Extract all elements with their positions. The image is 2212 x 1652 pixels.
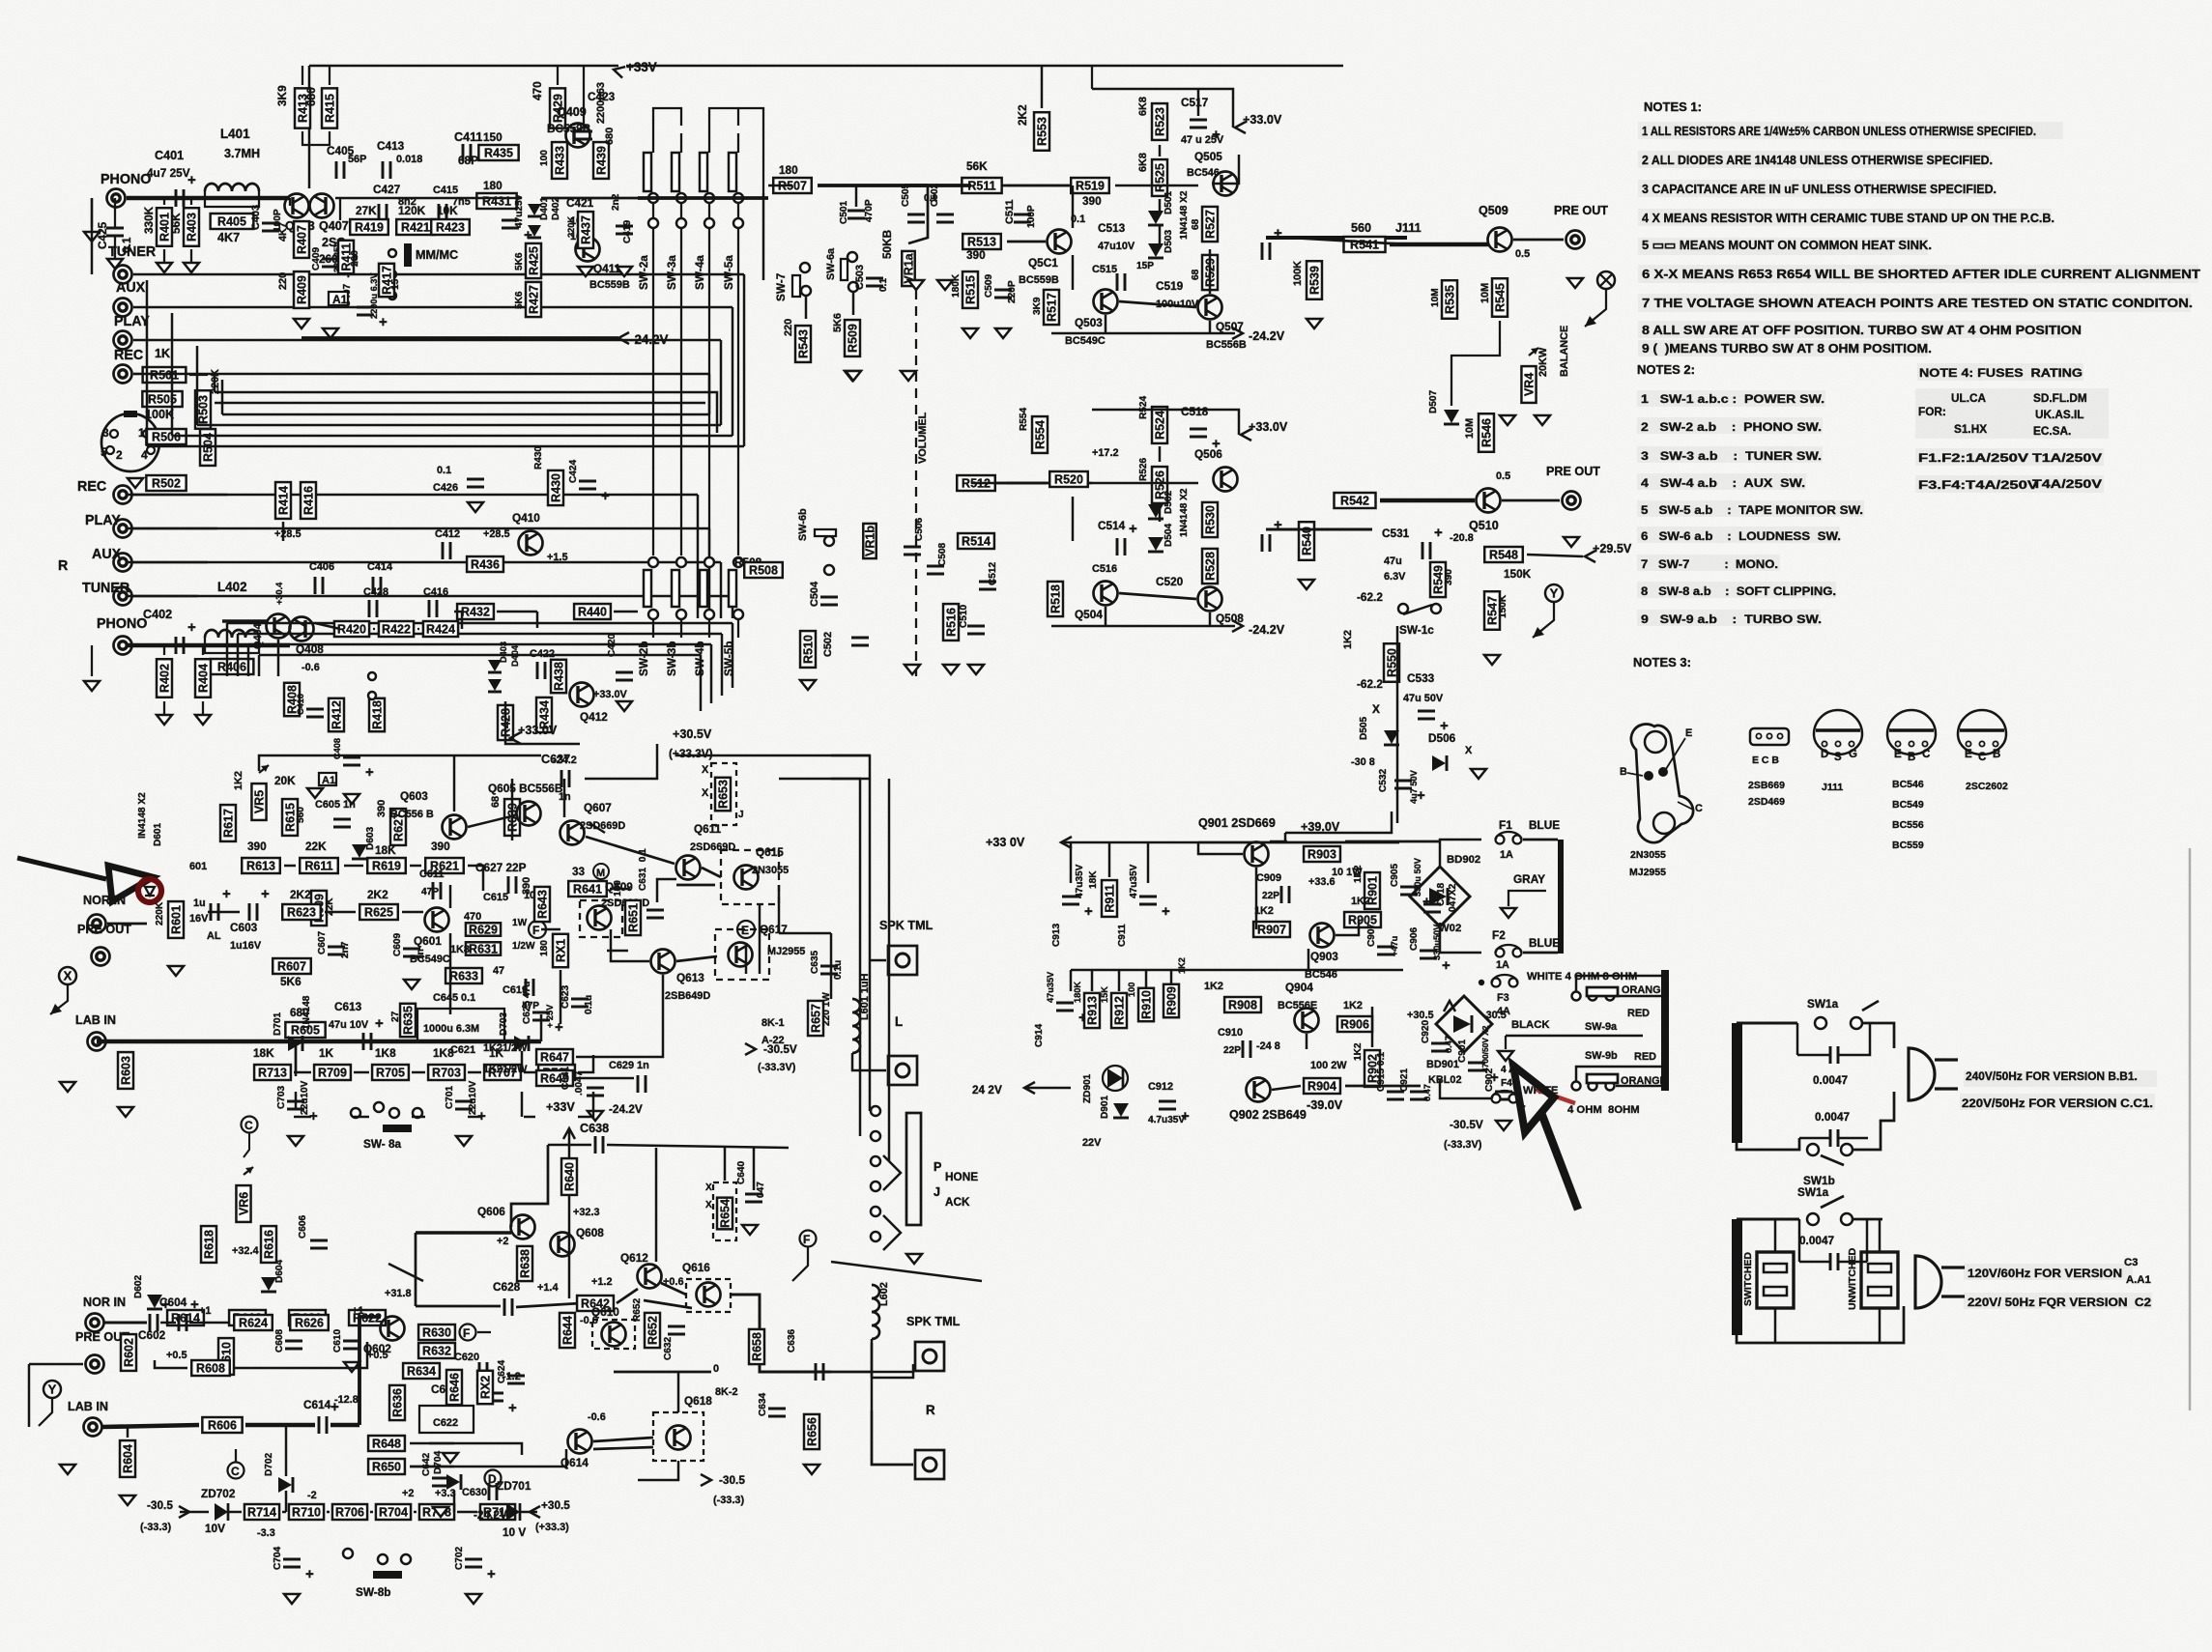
svg-text:5K6: 5K6	[280, 975, 302, 988]
mains1 primary bar	[1732, 1023, 1742, 1143]
resistor R621	[425, 858, 464, 873]
capacitor C915x	[1387, 1092, 1404, 1099]
svg-text:6K8: 6K8	[1137, 97, 1149, 116]
capacitor C414	[373, 577, 381, 594]
svg-text:C533: C533	[1407, 671, 1435, 685]
bus L line 1 bottom	[147, 445, 744, 447]
jack PHONO R	[114, 637, 132, 655]
resistor R513	[962, 234, 1001, 249]
resistor R913	[1084, 993, 1100, 1028]
svg-text:1/2W: 1/2W	[512, 941, 535, 952]
wire r526-d502	[1159, 506, 1161, 522]
resistor R420	[334, 621, 369, 637]
svg-text:R526: R526	[1138, 457, 1149, 481]
ground C610	[344, 1362, 359, 1372]
wire SW-5a mid	[737, 203, 739, 218]
resistor R605	[285, 1022, 325, 1038]
svg-text:D403: D403	[499, 641, 508, 663]
svg-text:-24.2V: -24.2V	[609, 1102, 643, 1116]
switch body SW-4b	[700, 570, 707, 607]
contact SW-6b b	[824, 565, 834, 575]
arrow 24.2	[1024, 1082, 1035, 1094]
capacitor C631	[646, 910, 664, 918]
svg-text:C519: C519	[1156, 279, 1184, 293]
svg-text:C420: C420	[607, 633, 618, 657]
contact SW-4a b	[704, 218, 714, 228]
wire spk R in	[872, 1364, 913, 1372]
resistor R623	[282, 904, 321, 920]
svg-text:1u: 1u	[193, 897, 206, 909]
svg-text:4K7: 4K7	[217, 231, 240, 244]
svg-text:R509: R509	[847, 324, 860, 353]
ground C703	[288, 1136, 303, 1146]
wire c601-r613	[208, 911, 240, 913]
ground vr	[901, 371, 916, 381]
resistor R510	[800, 631, 816, 668]
svg-text:R548: R548	[1489, 549, 1518, 562]
wire r428 row	[505, 701, 580, 744]
svg-text:1K2: 1K2	[1353, 865, 1364, 883]
resistor R619	[367, 858, 406, 873]
resistor R653	[715, 778, 731, 811]
wire q611-q615b	[702, 868, 721, 877]
svg-text:390: 390	[247, 840, 267, 853]
svg-text:+30.5: +30.5	[1407, 1010, 1434, 1021]
svg-text:R539: R539	[1308, 266, 1322, 295]
X hook arrow	[1585, 316, 1596, 327]
svg-text:SW-9b: SW-9b	[1585, 1050, 1618, 1062]
svg-text:R617: R617	[222, 809, 236, 838]
resistor R415	[322, 88, 337, 128]
svg-text:10M: 10M	[1479, 283, 1491, 303]
svg-text:C506: C506	[914, 517, 925, 541]
wire blk1 drop	[1091, 66, 1093, 89]
bus inner drop	[214, 375, 215, 392]
svg-text:NOTES 3:: NOTES 3:	[1633, 655, 1691, 669]
svg-text:0.1: 0.1	[120, 237, 133, 253]
wire r650	[410, 1466, 454, 1467]
svg-text:R913: R913	[1086, 996, 1100, 1025]
wire l602 out	[871, 1339, 873, 1372]
svg-text:10V: 10V	[205, 1522, 225, 1535]
resistor R428	[498, 705, 513, 740]
svg-text:VR5: VR5	[253, 790, 267, 813]
svg-text:33: 33	[572, 865, 586, 878]
diode D601 red circle	[138, 879, 161, 902]
svg-text:R421: R421	[401, 221, 430, 235]
contact SW8a a	[351, 1108, 360, 1118]
resistor RX2	[477, 1371, 493, 1404]
svg-text:+: +	[261, 886, 270, 902]
svg-text:C411: C411	[454, 130, 482, 144]
wire q503 down	[1105, 315, 1106, 333]
contact sw1b L	[1807, 1144, 1819, 1155]
svg-text:D601: D601	[153, 822, 163, 846]
capacitor C403	[262, 223, 279, 231]
svg-text:470P: 470P	[864, 199, 875, 222]
arrow -24.2V	[618, 332, 629, 344]
svg-text:C510: C510	[959, 604, 969, 628]
wire 24.2 ps	[1024, 1087, 1071, 1089]
resistor R431	[476, 193, 516, 209]
jack PLAY R	[114, 520, 132, 538]
svg-text:15P: 15P	[1136, 261, 1154, 271]
svg-text:Q509: Q509	[1479, 204, 1508, 217]
bus L line 1 right	[743, 274, 745, 446]
svg-text:390: 390	[521, 877, 532, 895]
resistor R911	[1102, 880, 1117, 917]
svg-text:10M: 10M	[1430, 288, 1441, 307]
svg-text:56K: 56K	[966, 159, 988, 173]
transistor Q408	[290, 617, 314, 641]
capacitor C531	[1422, 525, 1443, 559]
svg-text:MJ2955: MJ2955	[1629, 867, 1666, 878]
resistor R520	[1049, 471, 1088, 487]
wire d501-d503	[1159, 226, 1161, 243]
svg-text:R653: R653	[717, 780, 731, 809]
svg-text:+33 0V: +33 0V	[986, 836, 1025, 849]
arrow -24.2V blk2	[1232, 620, 1243, 632]
svg-text:C604: C604	[159, 1296, 187, 1309]
bus L line 1 top	[133, 273, 744, 275]
wire out node R	[614, 1371, 711, 1374]
wire q603-q605	[468, 815, 515, 827]
resistor R646	[446, 1370, 462, 1405]
svg-text:-3.3: -3.3	[257, 1527, 275, 1539]
jack NOR IN L	[88, 915, 106, 933]
wire blk2 -24 rail	[1051, 625, 1235, 627]
resistor R425	[526, 243, 541, 278]
ground R509	[845, 371, 860, 381]
resistor R624	[234, 1315, 273, 1330]
svg-text:R626: R626	[295, 1317, 324, 1330]
capacitor C606	[310, 1240, 328, 1248]
wire F2 to xfmr	[1523, 952, 1558, 954]
svg-text:-24.2V: -24.2V	[630, 332, 669, 347]
svg-text:6.3V: 6.3V	[1384, 571, 1406, 583]
node Y circle	[1545, 584, 1563, 602]
svg-text:SW-4a: SW-4a	[693, 255, 706, 290]
svg-text:R624: R624	[239, 1317, 268, 1330]
svg-text:1K2: 1K2	[233, 771, 244, 790]
resistor R651	[625, 900, 641, 935]
wire ps top rail	[1061, 841, 1198, 843]
svg-text:SWITCHED: SWITCHED	[1742, 1252, 1754, 1306]
phone contact 3	[871, 1156, 880, 1166]
wire SW-3a top	[680, 133, 682, 153]
TO-3 pin B dot	[1644, 771, 1653, 781]
svg-text:C413: C413	[377, 139, 405, 153]
svg-text:W02: W02	[1439, 923, 1461, 934]
svg-text:D602: D602	[133, 1274, 144, 1298]
diode D603	[352, 844, 367, 859]
wire q903 coll	[1336, 920, 1359, 935]
resistor R543	[795, 326, 811, 362]
svg-text:R439: R439	[595, 146, 609, 175]
svg-text:R652: R652	[632, 1297, 643, 1322]
resistor R527	[1202, 207, 1218, 242]
svg-text:Q607: Q607	[584, 801, 612, 814]
svg-text:R404: R404	[197, 664, 211, 693]
svg-text:180: 180	[483, 179, 503, 192]
svg-text:C415: C415	[433, 185, 458, 196]
svg-text:C606: C606	[298, 1214, 308, 1239]
ground phone	[906, 1254, 922, 1264]
arrow +33V	[612, 64, 625, 77]
svg-text:R407: R407	[296, 225, 309, 254]
svg-text:470: 470	[464, 911, 481, 923]
resistor R633	[445, 968, 482, 983]
wire L401 bypass	[205, 191, 259, 207]
resistor R632	[418, 1343, 455, 1358]
svg-text:47u 50V: 47u 50V	[1403, 693, 1444, 704]
svg-text:Q503: Q503	[1075, 316, 1103, 329]
svg-text:SPK TML: SPK TML	[906, 1315, 961, 1328]
wire q614-q618	[593, 1447, 653, 1449]
svg-text:C622: C622	[433, 1417, 458, 1429]
svg-text:0.1: 0.1	[878, 278, 889, 292]
resistor R501	[143, 367, 187, 383]
svg-text:RED: RED	[1634, 1051, 1656, 1063]
VR6 wiper arrow	[245, 1167, 253, 1174]
wire r910 top	[1145, 970, 1147, 987]
contact SW8a c	[389, 1108, 399, 1118]
jack PLAY L	[114, 331, 132, 350]
mains1 cap wire R	[1838, 1023, 1870, 1055]
svg-text:R540: R540	[1301, 527, 1314, 555]
svg-text:4: 4	[141, 448, 148, 462]
svg-text:SW-4b: SW-4b	[693, 641, 706, 676]
svg-text:+: +	[187, 619, 196, 636]
circle D node	[485, 1470, 502, 1487]
svg-text:.0047: .0047	[574, 1070, 585, 1096]
svg-text:2SD669D: 2SD669D	[690, 841, 735, 853]
svg-text:1u16V: 1u16V	[230, 940, 262, 952]
svg-text:AUX: AUX	[116, 280, 146, 296]
transistor Q606	[511, 1215, 535, 1239]
contact SW8a b	[374, 1102, 384, 1112]
bus low line 1 left	[226, 623, 228, 676]
wire to Q403	[289, 198, 291, 206]
wire R553 top	[1041, 66, 1043, 108]
wire q507 down	[1209, 321, 1211, 333]
wire r709-r705	[354, 1071, 369, 1073]
svg-text:2K2: 2K2	[1016, 104, 1029, 126]
svg-text:R648: R648	[372, 1438, 401, 1451]
jack PRE OUT R	[1563, 492, 1581, 510]
capacitor C402	[176, 619, 196, 654]
wire SW-3b drop	[680, 619, 682, 638]
wire r713-r709	[294, 1116, 311, 1118]
wire r608 in	[155, 1360, 187, 1368]
resistor R712	[480, 1504, 515, 1520]
svg-text:BC556B: BC556B	[1206, 339, 1247, 351]
scan edge line	[2189, 848, 2191, 1410]
svg-text:ORANGE: ORANGE	[1622, 984, 1668, 996]
svg-text:NOTES 1:: NOTES 1:	[1644, 100, 1702, 114]
wire black run	[1506, 1035, 1643, 1037]
resistor R511	[962, 178, 1001, 193]
svg-text:1K2: 1K2	[1204, 981, 1223, 992]
svg-text:560: 560	[1351, 221, 1371, 235]
TO-3 pin E dot	[1658, 767, 1668, 777]
wire r440 out	[614, 611, 638, 612]
svg-text:R412: R412	[330, 700, 344, 729]
wire 33V drop	[568, 1128, 570, 1159]
resistor R602	[121, 1334, 136, 1371]
wire r709-r705	[354, 1116, 369, 1118]
outlet unsw bottom	[1879, 1308, 1881, 1343]
capacitor C413	[383, 161, 390, 179]
svg-text:R437: R437	[580, 215, 593, 244]
capacitor C632	[668, 1326, 685, 1334]
wire R403	[190, 198, 192, 205]
svg-text:0.47: 0.47	[1422, 1084, 1432, 1101]
svg-text:Q412: Q412	[580, 710, 608, 724]
diode D604	[261, 1277, 276, 1292]
transistor Q610	[602, 1323, 626, 1347]
svg-text:+30.5: +30.5	[541, 1498, 570, 1512]
svg-text:R618: R618	[203, 1230, 216, 1259]
wire r902 col	[1371, 1007, 1373, 1047]
inductor L402	[205, 630, 259, 638]
C622 box	[419, 1406, 474, 1433]
diode D602	[147, 1295, 162, 1309]
ground C609	[404, 980, 419, 989]
wire r648 out	[410, 1443, 522, 1455]
wire q605-q607	[589, 823, 605, 833]
svg-text:R: R	[926, 1403, 935, 1417]
wire phone feed 3	[888, 779, 890, 1161]
transistor Q605	[517, 802, 541, 826]
svg-text:M: M	[596, 868, 605, 879]
capacitor C411	[463, 144, 471, 161]
wire F4 feed	[1440, 1079, 1491, 1098]
svg-text:C615: C615	[483, 892, 508, 903]
bus low line 1 top	[227, 622, 733, 624]
transistor Q615	[734, 866, 759, 890]
capacitor C425	[106, 228, 124, 236]
svg-text:R909: R909	[1165, 986, 1179, 1015]
contact SW-7 b	[801, 286, 811, 296]
svg-text:C: C	[1695, 803, 1703, 814]
wire r703-r707	[468, 1116, 481, 1118]
diode D404	[488, 679, 502, 692]
wire c625 tie	[540, 1014, 542, 1041]
scan shadow 1	[1638, 151, 1991, 168]
resistor R607	[273, 958, 311, 974]
svg-text:R406: R406	[217, 661, 246, 674]
wire q618 down	[638, 1461, 678, 1480]
wire c613 on	[375, 1040, 541, 1043]
wire r625-q601	[402, 911, 423, 913]
A1 box 2	[319, 773, 336, 785]
wire r611-r619	[344, 865, 363, 867]
svg-text:E: E	[1685, 727, 1692, 739]
svg-text:BC556 B: BC556 B	[390, 809, 434, 820]
svg-text:L602: L602	[878, 1282, 890, 1306]
Q615 dashed box	[721, 850, 779, 904]
svg-text:R513: R513	[967, 236, 996, 249]
resistor R608	[191, 1360, 230, 1376]
diode D506	[1432, 755, 1447, 771]
svg-text:F1: F1	[1499, 818, 1512, 832]
resistor R644	[560, 1313, 575, 1348]
svg-text:X: X	[1465, 745, 1473, 756]
wire q611 base	[657, 879, 676, 902]
svg-text:BC546: BC546	[1892, 779, 1924, 790]
svg-text:BLUE: BLUE	[1529, 818, 1560, 832]
svg-text:R418: R418	[371, 700, 385, 729]
svg-text:R430: R430	[533, 445, 544, 470]
wire to Q501 block	[971, 185, 1092, 187]
resistor R617	[220, 805, 236, 841]
svg-text:PHONO: PHONO	[101, 172, 151, 187]
phone tip1	[883, 1155, 901, 1190]
capacitor C630	[489, 1483, 497, 1500]
svg-text:+47u: +47u	[1390, 936, 1399, 956]
svg-text:1K8: 1K8	[433, 1046, 454, 1060]
diode D703	[514, 1036, 529, 1051]
svg-text:-1.2: -1.2	[503, 1371, 521, 1382]
svg-text:R706: R706	[335, 1506, 364, 1520]
svg-text:+: +	[555, 1019, 563, 1036]
svg-text:R524: R524	[1138, 395, 1149, 419]
arrow -30.5 b	[701, 1474, 711, 1486]
svg-text:+: +	[187, 172, 196, 188]
wire r525-d501	[1159, 199, 1161, 211]
mains2 top wire2	[1853, 1218, 1882, 1221]
mains2 cap wire L	[1799, 1261, 1830, 1263]
svg-text:X: X	[702, 787, 709, 799]
wire r507 left	[768, 185, 792, 186]
resistor R629	[466, 923, 501, 936]
wire d701 drop	[295, 1041, 297, 1076]
svg-text:E: E	[1965, 749, 1972, 760]
terminal SPK R2	[915, 1450, 944, 1479]
transistor Q508	[1198, 587, 1222, 612]
wire r605-c613	[329, 1040, 359, 1043]
svg-text:Y: Y	[48, 1382, 57, 1397]
wire q601 down	[449, 933, 451, 1014]
svg-text:R432: R432	[461, 606, 490, 619]
mains1 bottom wire2	[1853, 1092, 1894, 1150]
wire SW-3a long drop	[680, 228, 682, 555]
svg-text:R430: R430	[550, 473, 563, 502]
wire c628 in	[416, 1305, 501, 1308]
capacitor C628	[504, 1298, 512, 1316]
svg-text:0: 0	[713, 1363, 719, 1375]
svg-text:R553: R553	[1036, 117, 1049, 146]
wire sw9a to bar	[1616, 995, 1661, 997]
wire Q403 collector rail	[308, 66, 310, 188]
svg-text:+: +	[305, 1566, 314, 1582]
BC546 package	[1887, 710, 1936, 763]
svg-text:+: +	[379, 314, 388, 330]
wire r432 on	[497, 611, 537, 612]
2SC2602 package	[1958, 710, 2006, 763]
ground R401	[157, 263, 172, 272]
wire d702 to row	[285, 1491, 287, 1512]
capacitor C914	[1056, 1003, 1087, 1026]
svg-text:C517: C517	[1181, 96, 1209, 109]
svg-text:+: +	[508, 1400, 517, 1416]
capacitor C641	[587, 1088, 604, 1096]
contact SW-7 a	[800, 263, 810, 272]
svg-text:1: 1	[138, 426, 145, 440]
capacitor C609	[403, 949, 420, 956]
svg-text:R527: R527	[1204, 210, 1218, 239]
